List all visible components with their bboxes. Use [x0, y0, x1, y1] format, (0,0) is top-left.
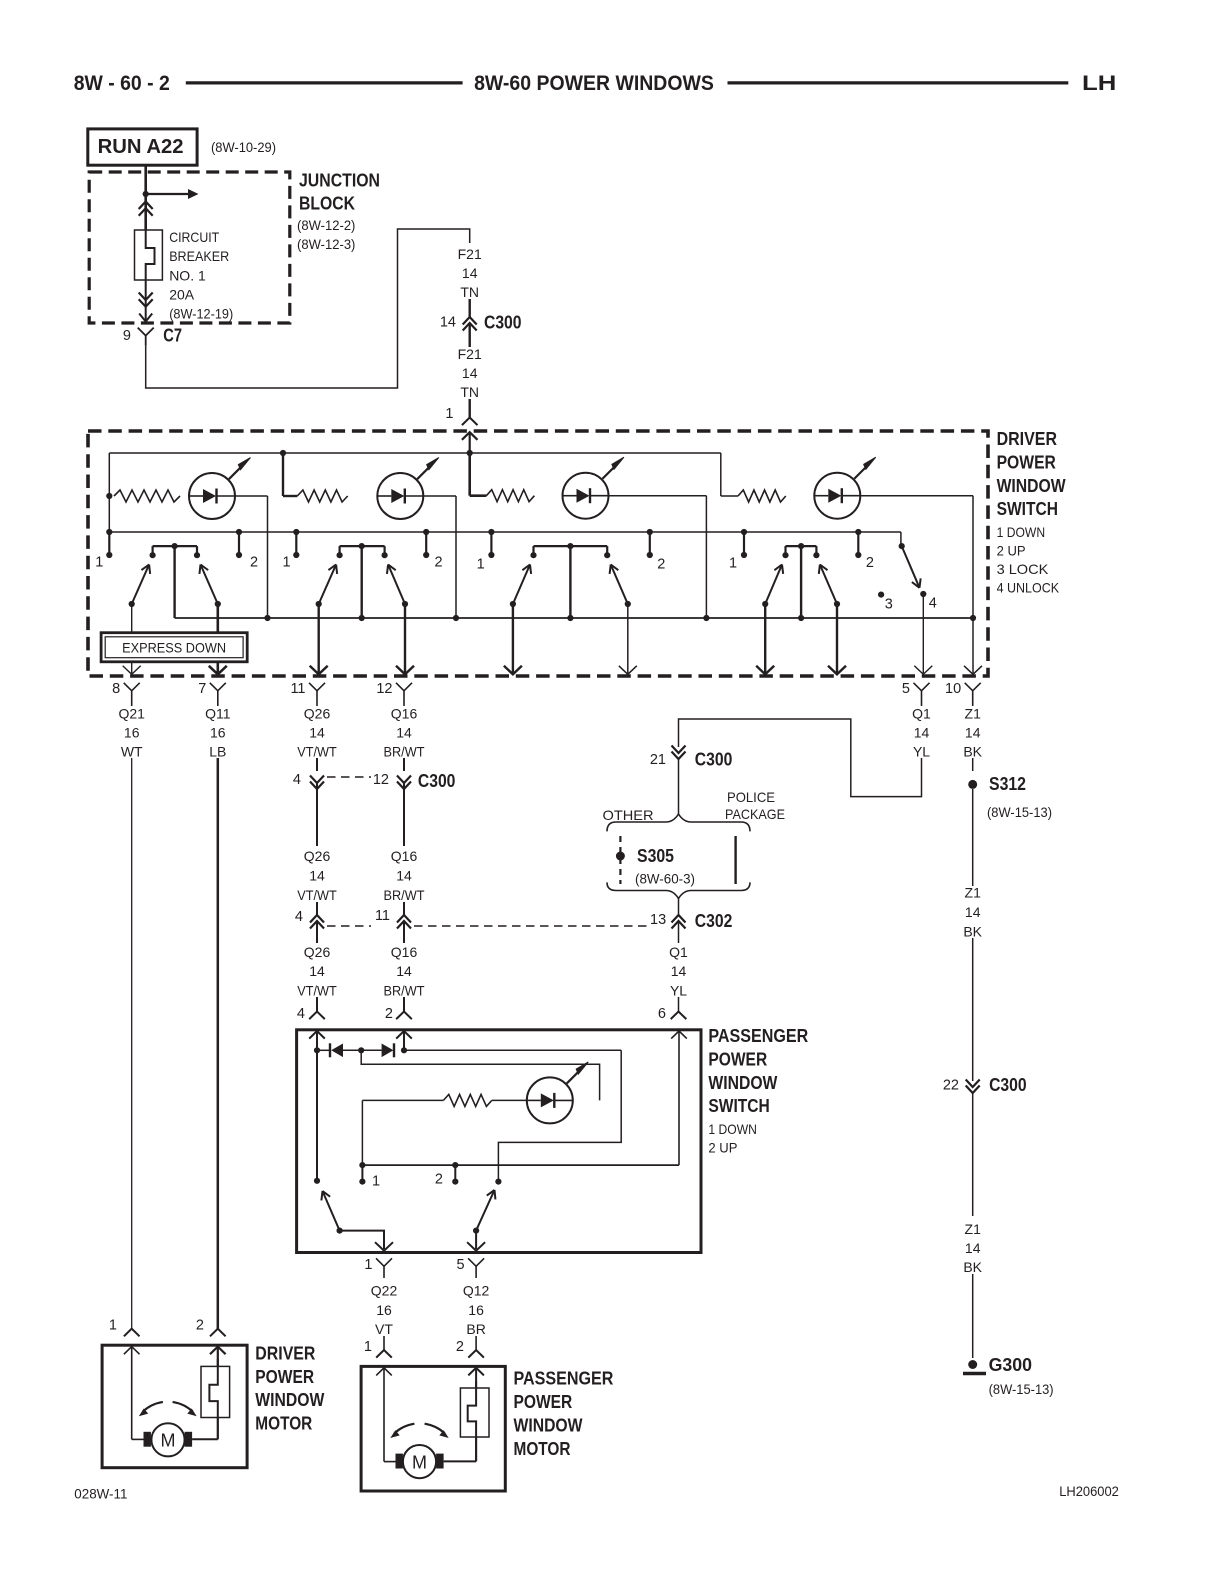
svg-text:BREAKER: BREAKER [169, 248, 229, 264]
svg-text:BR/WT: BR/WT [384, 887, 425, 903]
svg-text:C302: C302 [695, 911, 733, 931]
svg-text:SWITCH: SWITCH [997, 499, 1058, 519]
svg-text:LH: LH [1082, 72, 1116, 95]
svg-text:3: 3 [885, 597, 893, 613]
svg-text:14: 14 [396, 868, 412, 884]
svg-text:Q1: Q1 [912, 706, 931, 722]
svg-text:14: 14 [396, 725, 412, 741]
svg-text:JUNCTION: JUNCTION [299, 171, 380, 191]
svg-text:16: 16 [468, 1302, 484, 1318]
svg-text:(8W-60-3): (8W-60-3) [635, 872, 695, 887]
svg-text:11: 11 [375, 908, 390, 924]
svg-text:7: 7 [198, 681, 206, 697]
svg-text:C7: C7 [163, 326, 182, 346]
svg-text:LB: LB [209, 744, 226, 760]
svg-text:16: 16 [376, 1302, 392, 1318]
svg-text:RUN A22: RUN A22 [98, 136, 184, 158]
svg-text:POWER: POWER [997, 452, 1056, 472]
svg-text:11: 11 [290, 681, 305, 697]
svg-text:Q11: Q11 [205, 706, 231, 722]
svg-text:BK: BK [963, 744, 982, 760]
svg-text:(8W-15-13): (8W-15-13) [987, 805, 1052, 820]
svg-text:4: 4 [293, 772, 301, 788]
svg-text:POWER: POWER [514, 1392, 573, 1412]
svg-text:PASSENGER: PASSENGER [708, 1026, 808, 1046]
svg-text:1: 1 [364, 1257, 372, 1273]
svg-text:CIRCUIT: CIRCUIT [169, 229, 219, 245]
svg-text:1: 1 [364, 1339, 372, 1355]
svg-text:12: 12 [373, 772, 389, 788]
svg-text:(8W-12-3): (8W-12-3) [297, 237, 355, 252]
svg-text:(8W-10-29): (8W-10-29) [211, 140, 276, 155]
svg-text:1: 1 [477, 557, 485, 573]
svg-text:2: 2 [456, 1339, 464, 1355]
svg-text:WINDOW: WINDOW [255, 1390, 324, 1410]
svg-text:2: 2 [657, 557, 665, 573]
svg-text:BR/WT: BR/WT [384, 982, 425, 998]
svg-text:WINDOW: WINDOW [514, 1415, 583, 1435]
svg-text:1: 1 [109, 1318, 117, 1334]
svg-text:WINDOW: WINDOW [997, 476, 1066, 496]
svg-text:Z1: Z1 [965, 885, 982, 901]
svg-text:14: 14 [440, 315, 456, 331]
svg-text:BR/WT: BR/WT [384, 744, 425, 760]
svg-text:WT: WT [121, 744, 143, 760]
svg-text:S305: S305 [637, 846, 674, 866]
svg-text:POWER: POWER [255, 1367, 314, 1387]
svg-text:Z1: Z1 [965, 1221, 982, 1237]
svg-text:16: 16 [124, 725, 140, 741]
svg-text:4 UNLOCK: 4 UNLOCK [997, 580, 1060, 596]
svg-text:M: M [412, 1452, 427, 1472]
svg-text:2: 2 [385, 1006, 393, 1022]
svg-text:2: 2 [434, 555, 442, 571]
svg-text:13: 13 [650, 912, 666, 928]
svg-text:4: 4 [295, 909, 303, 925]
svg-text:Q16: Q16 [391, 944, 418, 960]
svg-text:TN: TN [460, 384, 479, 400]
svg-text:10: 10 [945, 681, 961, 697]
svg-text:F21: F21 [458, 346, 482, 362]
svg-text:14: 14 [671, 963, 687, 979]
svg-text:YL: YL [670, 982, 687, 998]
svg-text:Q12: Q12 [463, 1283, 490, 1299]
svg-text:F21: F21 [458, 246, 482, 262]
svg-text:14: 14 [965, 904, 981, 920]
svg-text:POLICE: POLICE [727, 789, 775, 805]
svg-text:Q16: Q16 [391, 848, 418, 864]
svg-text:2: 2 [250, 555, 258, 571]
svg-text:M: M [161, 1431, 176, 1451]
svg-text:1: 1 [95, 555, 103, 571]
svg-text:Q26: Q26 [304, 848, 331, 864]
svg-text:21: 21 [650, 752, 666, 768]
svg-text:14: 14 [914, 725, 930, 741]
svg-text:VT/WT: VT/WT [297, 982, 337, 998]
svg-text:VT/WT: VT/WT [297, 744, 337, 760]
svg-text:(8W-12-19): (8W-12-19) [169, 306, 233, 321]
svg-text:BK: BK [963, 923, 982, 939]
svg-text:028W-11: 028W-11 [74, 1486, 127, 1502]
svg-text:20A: 20A [169, 287, 195, 303]
svg-text:YL: YL [913, 744, 930, 760]
svg-text:2 UP: 2 UP [708, 1140, 737, 1156]
svg-text:TN: TN [460, 284, 479, 300]
svg-text:1 DOWN: 1 DOWN [708, 1121, 757, 1137]
svg-text:DRIVER: DRIVER [255, 1343, 315, 1363]
svg-text:(8W-12-2): (8W-12-2) [297, 218, 355, 233]
svg-text:LH206002: LH206002 [1059, 1483, 1119, 1499]
svg-text:16: 16 [210, 725, 226, 741]
svg-text:22: 22 [943, 1078, 959, 1094]
svg-text:3 LOCK: 3 LOCK [997, 561, 1049, 577]
svg-text:OTHER: OTHER [603, 807, 654, 823]
svg-text:14: 14 [462, 365, 478, 381]
svg-text:4: 4 [929, 596, 937, 612]
svg-text:8W - 60 - 2: 8W - 60 - 2 [74, 72, 170, 95]
svg-text:NO. 1: NO. 1 [169, 267, 206, 283]
svg-text:G300: G300 [989, 1355, 1032, 1375]
svg-text:1: 1 [282, 555, 290, 571]
svg-text:PASSENGER: PASSENGER [514, 1369, 614, 1389]
svg-text:C300: C300 [418, 771, 456, 791]
svg-text:9: 9 [123, 328, 131, 344]
svg-text:Q22: Q22 [371, 1283, 398, 1299]
svg-text:6: 6 [658, 1006, 666, 1022]
svg-text:14: 14 [965, 1240, 981, 1256]
svg-text:EXPRESS DOWN: EXPRESS DOWN [122, 639, 226, 655]
svg-text:C300: C300 [695, 750, 733, 770]
svg-text:BK: BK [963, 1259, 982, 1275]
svg-text:Q26: Q26 [304, 944, 331, 960]
svg-text:S312: S312 [989, 774, 1026, 794]
svg-text:8W-60 POWER WINDOWS: 8W-60 POWER WINDOWS [474, 72, 714, 95]
svg-text:Z1: Z1 [965, 706, 982, 722]
svg-text:14: 14 [462, 265, 478, 281]
svg-text:1: 1 [372, 1174, 380, 1190]
svg-text:C300: C300 [989, 1075, 1027, 1095]
svg-text:14: 14 [309, 868, 325, 884]
svg-text:Q26: Q26 [304, 706, 331, 722]
svg-text:C300: C300 [484, 313, 522, 333]
svg-text:4: 4 [297, 1006, 305, 1022]
svg-text:14: 14 [309, 963, 325, 979]
svg-text:SWITCH: SWITCH [708, 1096, 769, 1116]
svg-text:BLOCK: BLOCK [299, 194, 355, 214]
svg-text:POWER: POWER [708, 1049, 767, 1069]
svg-text:14: 14 [309, 725, 325, 741]
svg-text:MOTOR: MOTOR [514, 1439, 571, 1459]
svg-text:1: 1 [729, 556, 737, 572]
svg-text:1 DOWN: 1 DOWN [997, 524, 1046, 540]
svg-text:DRIVER: DRIVER [997, 429, 1057, 449]
svg-text:2 UP: 2 UP [997, 543, 1026, 559]
svg-text:(8W-15-13): (8W-15-13) [989, 1382, 1054, 1397]
svg-text:VT: VT [375, 1321, 393, 1337]
svg-text:Q1: Q1 [669, 944, 688, 960]
svg-text:2: 2 [435, 1172, 443, 1188]
svg-text:PACKAGE: PACKAGE [725, 806, 785, 822]
svg-text:8: 8 [112, 681, 120, 697]
svg-text:2: 2 [196, 1318, 204, 1334]
svg-text:2: 2 [866, 555, 874, 571]
svg-text:12: 12 [376, 681, 392, 697]
svg-text:Q21: Q21 [118, 706, 145, 722]
svg-text:Q16: Q16 [391, 706, 418, 722]
svg-text:MOTOR: MOTOR [255, 1414, 312, 1434]
svg-text:WINDOW: WINDOW [708, 1073, 777, 1093]
svg-text:5: 5 [457, 1257, 465, 1273]
svg-text:14: 14 [965, 725, 981, 741]
svg-text:14: 14 [396, 963, 412, 979]
svg-text:1: 1 [445, 406, 453, 422]
svg-text:BR: BR [466, 1321, 485, 1337]
svg-text:5: 5 [902, 681, 910, 697]
svg-text:VT/WT: VT/WT [297, 887, 337, 903]
